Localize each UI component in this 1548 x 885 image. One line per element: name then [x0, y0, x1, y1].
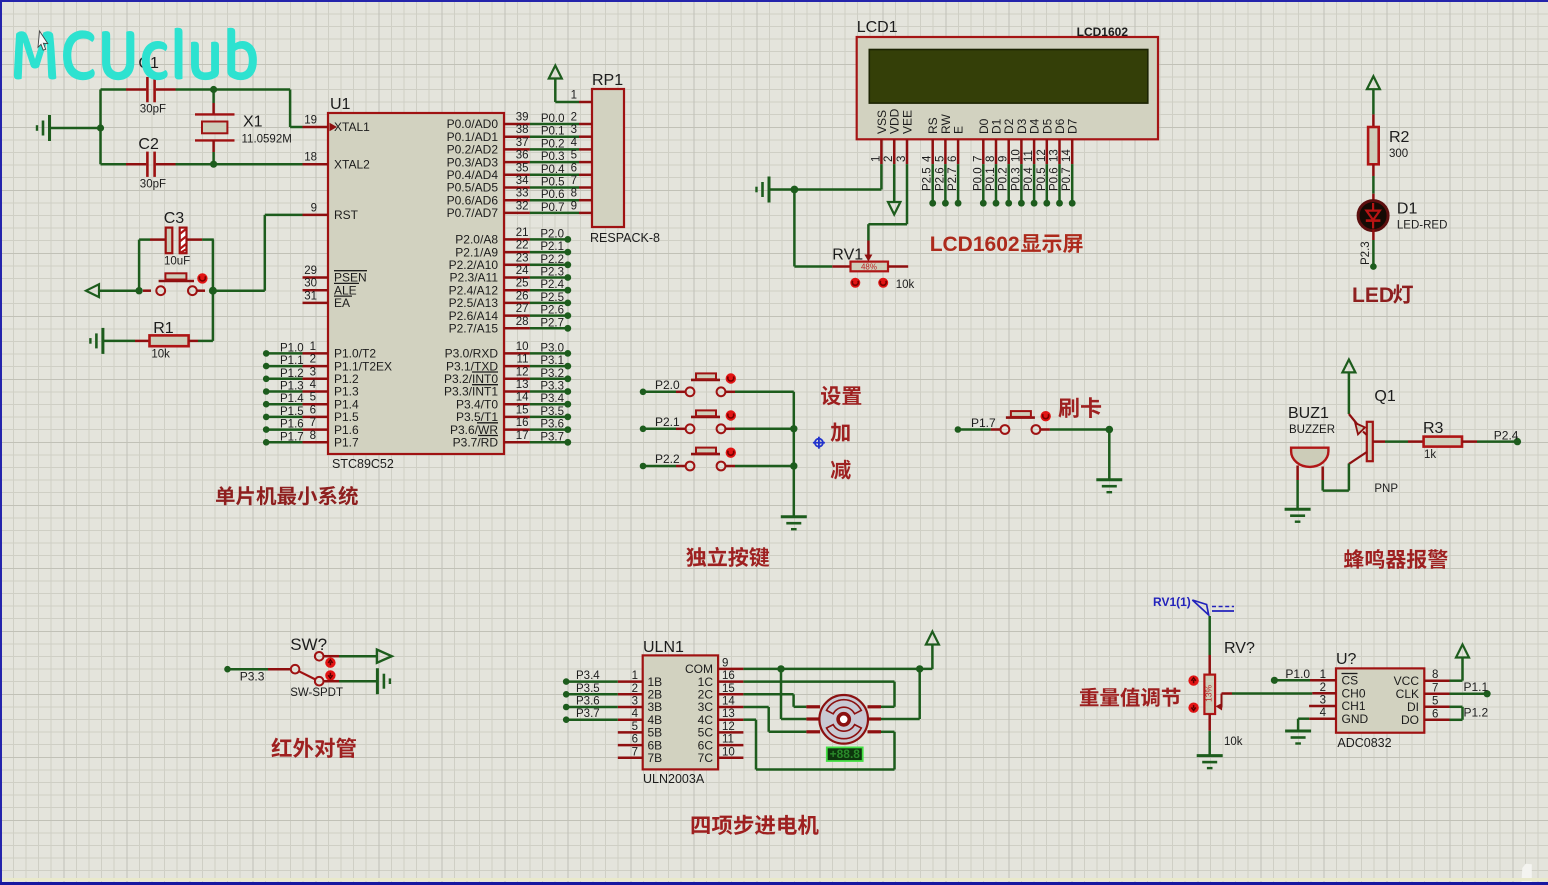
ground — [1285, 509, 1311, 522]
svg-text:P1.0: P1.0 — [280, 342, 304, 354]
ground — [1096, 480, 1122, 493]
svg-text:P3.6: P3.6 — [540, 419, 564, 431]
stepper motor — [806, 695, 881, 744]
svg-text:14: 14 — [722, 696, 735, 708]
svg-text:P0.5: P0.5 — [1036, 167, 1048, 191]
svg-text:EA: EA — [334, 296, 350, 310]
svg-text:37: 37 — [516, 137, 529, 149]
button P2.0 — [640, 373, 794, 396]
svg-text:P3.1: P3.1 — [540, 355, 564, 367]
svg-text:P0.4: P0.4 — [1023, 167, 1035, 191]
svg-text:P2.5: P2.5 — [540, 292, 564, 304]
svg-text:14: 14 — [516, 392, 529, 404]
svg-text:3: 3 — [310, 366, 316, 378]
svg-text:7: 7 — [571, 175, 577, 187]
svg-text:P0.3: P0.3 — [541, 151, 565, 163]
resistor R2 — [1368, 114, 1409, 176]
svg-text:12: 12 — [1036, 149, 1048, 162]
svg-text:P1.3: P1.3 — [280, 381, 304, 393]
wire VSS to ground — [794, 164, 881, 189]
svg-text:4: 4 — [571, 137, 578, 149]
svg-text:39: 39 — [516, 112, 529, 124]
svg-text:P0.3: P0.3 — [1010, 167, 1022, 191]
svg-text:P0.0: P0.0 — [972, 167, 984, 191]
resistor R3 — [1373, 420, 1518, 461]
capacitor C3 — [139, 210, 214, 268]
svg-text:12: 12 — [516, 366, 529, 378]
svg-text:2: 2 — [571, 112, 577, 124]
svg-text:DI: DI — [1407, 700, 1419, 714]
svg-text:5: 5 — [571, 150, 577, 162]
wire 2C to motor — [743, 694, 806, 707]
svg-text:10uF: 10uF — [164, 256, 190, 268]
svg-text:P1.6: P1.6 — [280, 419, 304, 431]
svg-text:30pF: 30pF — [140, 104, 166, 116]
wire wiper to CH0 — [1222, 692, 1313, 695]
svg-text:10k: 10k — [896, 279, 915, 291]
svg-text:18: 18 — [304, 152, 317, 164]
label plus — [831, 423, 850, 442]
net P3.4-P3.7 stubs — [563, 670, 618, 723]
svg-text:4: 4 — [922, 155, 934, 162]
svg-text:22: 22 — [516, 240, 529, 252]
svg-text:6: 6 — [947, 156, 959, 162]
svg-text:P0.7: P0.7 — [1061, 167, 1073, 191]
ground — [377, 668, 390, 694]
potentiometer RV? — [1188, 640, 1255, 748]
svg-text:34: 34 — [516, 175, 529, 187]
button P2.2 — [640, 448, 794, 471]
svg-text:11: 11 — [517, 354, 529, 366]
wire COM rail — [743, 645, 932, 673]
svg-text:P2.3: P2.3 — [1360, 241, 1372, 265]
svg-text:6: 6 — [632, 734, 638, 746]
svg-text:RESPACK-8: RESPACK-8 — [590, 231, 660, 245]
svg-text:48%: 48% — [861, 263, 877, 272]
net P2.4 — [1494, 429, 1521, 446]
svg-text:6: 6 — [1432, 708, 1438, 720]
svg-text:31: 31 — [304, 290, 317, 302]
svg-text:27: 27 — [516, 303, 529, 315]
ground — [1197, 756, 1223, 769]
wire — [214, 163, 303, 166]
svg-text:11.0592M: 11.0592M — [242, 134, 292, 146]
svg-text:PNP: PNP — [1374, 483, 1398, 495]
ground — [37, 115, 101, 141]
ground — [781, 517, 807, 530]
lcd LCD1 LCD1602 — [857, 19, 1158, 164]
svg-text:P0.2: P0.2 — [541, 138, 565, 150]
capacitor C2 — [101, 136, 214, 191]
svg-text:2: 2 — [1320, 682, 1326, 694]
svg-text:P2.3: P2.3 — [540, 267, 564, 279]
svg-text:35: 35 — [516, 162, 529, 174]
svg-text:P2.1: P2.1 — [655, 415, 680, 429]
crystal X1 — [195, 90, 292, 165]
svg-text:29: 29 — [304, 265, 317, 277]
svg-text:P3.7/RD: P3.7/RD — [453, 436, 499, 450]
svg-text:P2.1: P2.1 — [540, 241, 564, 253]
svg-text:P3.4: P3.4 — [540, 393, 564, 405]
svg-text:13%: 13% — [1204, 685, 1214, 702]
net P2.3 stub — [1360, 230, 1377, 270]
wire — [214, 90, 303, 128]
node junction — [1106, 426, 1114, 434]
net P0.x wires — [530, 113, 579, 214]
label minus — [831, 460, 851, 480]
svg-text:STC89C52: STC89C52 — [332, 457, 394, 471]
svg-text:13: 13 — [722, 708, 735, 720]
svg-text:10k: 10k — [1224, 736, 1243, 748]
svg-text:28: 28 — [516, 316, 529, 328]
svg-text:U?: U? — [1336, 651, 1357, 668]
svg-text:E: E — [952, 126, 966, 134]
svg-text:X1: X1 — [243, 114, 263, 131]
svg-text:26: 26 — [516, 290, 529, 302]
svg-text:10: 10 — [722, 746, 735, 758]
svg-text:1: 1 — [310, 341, 316, 353]
svg-text:9: 9 — [571, 200, 577, 212]
svg-text:P0.0: P0.0 — [541, 113, 565, 125]
power arrow — [549, 66, 579, 103]
svg-text:U1: U1 — [330, 96, 351, 113]
svg-text:8: 8 — [985, 156, 997, 162]
svg-text:10: 10 — [1010, 149, 1022, 162]
svg-text:CLK: CLK — [1396, 687, 1419, 701]
svg-text:P2.6: P2.6 — [540, 305, 564, 317]
power arrow — [1367, 76, 1380, 114]
wire — [1208, 714, 1211, 756]
svg-text:14: 14 — [1061, 149, 1073, 162]
svg-text:VCC: VCC — [1394, 674, 1420, 688]
logo MCUclub — [14, 28, 257, 80]
svg-text:P2.2: P2.2 — [540, 254, 564, 266]
svg-text:P2.7: P2.7 — [947, 167, 959, 191]
svg-text:36: 36 — [516, 150, 529, 162]
svg-text:6: 6 — [310, 404, 316, 416]
svg-text:25: 25 — [516, 278, 529, 290]
svg-text:R1: R1 — [153, 320, 174, 337]
svg-text:P2.7: P2.7 — [540, 317, 564, 329]
svg-text:P0.6: P0.6 — [1049, 167, 1061, 191]
svg-text:15: 15 — [722, 683, 735, 695]
svg-text:6: 6 — [571, 162, 577, 174]
svg-text:5: 5 — [310, 392, 316, 404]
svg-text:LCD1: LCD1 — [857, 19, 898, 36]
svg-text:BUZ1: BUZ1 — [1288, 405, 1329, 422]
mcu U1 STC89C52 — [303, 96, 530, 471]
svg-text:12: 12 — [722, 721, 735, 733]
ground — [1285, 731, 1311, 744]
svg-text:38: 38 — [516, 124, 529, 136]
svg-text:DO: DO — [1401, 713, 1419, 727]
wire — [97, 90, 104, 165]
net P3.3 — [224, 666, 268, 684]
svg-text:17: 17 — [516, 430, 529, 442]
svg-text:RV1: RV1 — [832, 247, 863, 264]
svg-text:RV1(1): RV1(1) — [1153, 595, 1191, 609]
svg-text:3: 3 — [632, 696, 638, 708]
svg-text:P0.1: P0.1 — [541, 126, 565, 138]
svg-text:1k: 1k — [1424, 449, 1436, 461]
svg-text:P2.7/A15: P2.7/A15 — [449, 322, 499, 336]
node RST junction — [209, 287, 217, 295]
svg-text:SW?: SW? — [290, 635, 327, 654]
switch SW? SW-SPDT — [268, 635, 343, 699]
wire 1C to motor — [743, 682, 894, 707]
potentiometer RV1 — [794, 190, 914, 292]
svg-text:4: 4 — [632, 708, 639, 720]
svg-text:LCD1602: LCD1602 — [930, 233, 1020, 256]
led D1 LED-RED — [1358, 201, 1447, 232]
power arrow — [926, 632, 939, 645]
svg-text:5: 5 — [934, 156, 946, 162]
svg-text:P1.7: P1.7 — [971, 416, 996, 430]
svg-text:7: 7 — [972, 156, 984, 162]
svg-text:D7: D7 — [1066, 118, 1080, 134]
svg-text:P0.5: P0.5 — [541, 177, 565, 189]
cursor arrow — [38, 31, 48, 50]
svg-text:P3.0: P3.0 — [540, 342, 564, 354]
svg-text:P2.4: P2.4 — [540, 279, 564, 291]
svg-text:GND: GND — [1342, 712, 1369, 726]
label set — [821, 386, 861, 406]
net P1.2 loop — [1450, 706, 1489, 720]
svg-text:9: 9 — [998, 156, 1010, 162]
wire button bus — [790, 392, 797, 517]
svg-text:P1.5: P1.5 — [280, 406, 304, 418]
wire 3C to motor — [743, 707, 806, 732]
node XTAL2 net junction — [210, 161, 217, 168]
origin marker — [813, 437, 825, 449]
svg-text:P0.7: P0.7 — [541, 202, 565, 214]
power arrow — [1456, 645, 1469, 658]
wire VEE — [868, 164, 907, 240]
svg-text:5: 5 — [632, 721, 638, 733]
svg-text:1: 1 — [870, 156, 882, 162]
svg-text:7B: 7B — [648, 751, 663, 765]
svg-text:+88.8: +88.8 — [830, 747, 861, 761]
ground — [757, 177, 795, 203]
label independent keys — [686, 547, 769, 567]
svg-text:P3.7: P3.7 — [576, 708, 600, 720]
svg-text:2: 2 — [632, 683, 638, 695]
label infrared tubes — [271, 738, 356, 758]
svg-text:P3.4: P3.4 — [576, 670, 600, 682]
svg-text:P1.1: P1.1 — [1464, 680, 1489, 694]
svg-text:BUZZER: BUZZER — [1289, 424, 1335, 436]
power arrow VDD — [888, 164, 900, 214]
svg-text:RST: RST — [334, 208, 359, 222]
svg-text:C2: C2 — [138, 136, 159, 153]
motor rpm display — [827, 747, 863, 761]
label mcu minimal system — [216, 486, 358, 506]
svg-text:P1.7: P1.7 — [334, 436, 359, 450]
svg-text:10: 10 — [516, 341, 529, 353]
buzzer BUZ1 — [1288, 405, 1335, 509]
label RV1(1) probe — [1153, 595, 1234, 615]
wire GND pin — [1298, 719, 1309, 731]
svg-text:Q1: Q1 — [1374, 388, 1395, 405]
svg-text:ULN2003A: ULN2003A — [643, 772, 705, 786]
svg-text:1: 1 — [1320, 669, 1326, 681]
wire — [1372, 176, 1375, 203]
svg-text:P3.2: P3.2 — [540, 368, 564, 380]
svg-text:13: 13 — [516, 379, 529, 391]
label LED light — [1352, 284, 1413, 307]
svg-text:30: 30 — [304, 278, 317, 290]
svg-text:24: 24 — [516, 265, 529, 277]
svg-text:16: 16 — [722, 670, 735, 682]
svg-text:P3.5: P3.5 — [540, 406, 564, 418]
svg-text:8: 8 — [571, 188, 577, 200]
svg-text:8: 8 — [310, 430, 316, 442]
svg-text:9: 9 — [722, 657, 728, 669]
wire collector — [1323, 464, 1349, 491]
svg-text:P2.0: P2.0 — [540, 228, 564, 240]
svg-text:P3.3: P3.3 — [540, 381, 564, 393]
svg-text:LED-RED: LED-RED — [1397, 220, 1447, 232]
svg-text:P2.5: P2.5 — [922, 167, 934, 191]
label weight adjust — [1080, 688, 1181, 707]
svg-text:XTAL1: XTAL1 — [334, 120, 370, 134]
svg-text:10k: 10k — [151, 349, 170, 361]
svg-text:9: 9 — [311, 202, 317, 214]
wire COM left to motor — [781, 669, 806, 719]
svg-text:P0.1: P0.1 — [985, 167, 997, 191]
svg-text:7C: 7C — [698, 751, 714, 765]
svg-text:P2.6: P2.6 — [934, 167, 946, 191]
svg-text:3: 3 — [571, 124, 577, 136]
svg-text:7: 7 — [1432, 682, 1438, 694]
driver ULN1 ULN2003A — [618, 639, 744, 786]
svg-text:3: 3 — [1320, 695, 1326, 707]
svg-text:1: 1 — [632, 670, 638, 682]
svg-text:LCD1602: LCD1602 — [1077, 25, 1129, 39]
node XTAL1 net junction — [210, 86, 217, 93]
svg-text:1: 1 — [571, 90, 577, 102]
capacitor C1 — [101, 55, 214, 116]
svg-text:P0.2: P0.2 — [998, 167, 1010, 191]
svg-text:5: 5 — [1432, 695, 1438, 707]
svg-text:2: 2 — [883, 156, 895, 162]
svg-text:P3.7: P3.7 — [540, 431, 564, 443]
svg-text:13: 13 — [1049, 149, 1061, 162]
resistor R1 — [90, 291, 212, 361]
svg-text:P1.4: P1.4 — [280, 393, 304, 405]
wire to arrow — [324, 650, 392, 663]
svg-text:7: 7 — [632, 746, 638, 758]
svg-text:XTAL2: XTAL2 — [334, 157, 370, 171]
svg-text:P2.4: P2.4 — [1494, 429, 1519, 443]
svg-text:7: 7 — [310, 417, 316, 429]
cursor bottom right — [1521, 864, 1532, 885]
svg-text:VEE: VEE — [901, 110, 915, 134]
svg-text:SW-SPDT: SW-SPDT — [290, 687, 343, 699]
svg-text:LED: LED — [1352, 284, 1394, 307]
svg-text:ULN1: ULN1 — [643, 639, 684, 656]
net P2.x stubs — [530, 228, 571, 331]
svg-text:P2.2: P2.2 — [655, 452, 680, 466]
net P1.x stubs — [263, 342, 304, 445]
reset button — [135, 273, 207, 295]
svg-text:21: 21 — [516, 227, 529, 239]
net stubs LCD data — [922, 164, 1076, 207]
wire — [1208, 616, 1211, 675]
button P2.1 — [640, 410, 794, 433]
svg-text:2: 2 — [310, 354, 316, 366]
svg-text:16: 16 — [516, 417, 529, 429]
net P3.x stubs — [530, 342, 571, 445]
power arrow — [86, 284, 139, 297]
svg-text:RP1: RP1 — [592, 72, 623, 89]
wire 4C loop to motor — [743, 720, 894, 770]
wire VCC to power — [1450, 658, 1463, 681]
svg-text:P1.2: P1.2 — [1464, 706, 1489, 720]
svg-text:32: 32 — [516, 200, 529, 212]
wire — [1108, 430, 1111, 480]
svg-text:4: 4 — [310, 379, 317, 391]
svg-text:P3.3: P3.3 — [240, 670, 265, 684]
button P1.7 swipe — [955, 411, 1110, 434]
svg-text:19: 19 — [304, 115, 317, 127]
label stepper motor title — [692, 815, 819, 835]
svg-text:R2: R2 — [1389, 129, 1410, 146]
label swipe card — [1058, 397, 1101, 418]
svg-text:P1.2: P1.2 — [280, 368, 304, 380]
transistor Q1 PNP — [1349, 388, 1398, 495]
svg-text:P0.4: P0.4 — [541, 164, 565, 176]
svg-text:11: 11 — [1023, 150, 1035, 162]
svg-text:23: 23 — [516, 252, 529, 264]
svg-text:R3: R3 — [1423, 420, 1444, 437]
net P1.1 — [1450, 680, 1491, 697]
svg-text:3: 3 — [896, 156, 908, 162]
svg-text:P0.6: P0.6 — [541, 189, 565, 201]
svg-text:11: 11 — [722, 734, 734, 746]
wire RST — [213, 215, 303, 291]
svg-text:8: 8 — [1432, 669, 1438, 681]
label LCD1602 display title — [930, 233, 1083, 256]
respack RP1 — [571, 72, 660, 245]
svg-text:30pF: 30pF — [140, 179, 166, 191]
svg-text:P1.7: P1.7 — [280, 431, 304, 443]
node VSS junction — [791, 186, 799, 194]
power arrow — [1342, 360, 1355, 415]
svg-text:RV?: RV? — [1224, 640, 1255, 657]
svg-text:P1.0: P1.0 — [1285, 667, 1310, 681]
svg-text:P2.0: P2.0 — [655, 378, 680, 392]
wire to ground — [324, 680, 378, 683]
svg-text:P0.7/AD7: P0.7/AD7 — [447, 206, 499, 220]
wire — [139, 240, 213, 291]
adc U? ADC0832 — [1309, 651, 1449, 750]
svg-text:33: 33 — [516, 188, 529, 200]
svg-text:4: 4 — [1320, 707, 1327, 719]
label buzzer alarm — [1344, 549, 1448, 569]
svg-text:15: 15 — [516, 404, 529, 416]
net P1.0 — [1271, 667, 1311, 684]
svg-text:P1.1: P1.1 — [280, 355, 304, 367]
wire COM right to motor — [881, 669, 920, 719]
svg-text:D1: D1 — [1397, 201, 1418, 218]
svg-text:P3.6: P3.6 — [576, 696, 600, 708]
svg-text:300: 300 — [1389, 148, 1408, 160]
svg-text:P3.5: P3.5 — [576, 683, 600, 695]
svg-text:C3: C3 — [164, 210, 185, 227]
svg-text:ADC0832: ADC0832 — [1337, 736, 1391, 750]
svg-text:CS: CS — [1342, 674, 1359, 688]
